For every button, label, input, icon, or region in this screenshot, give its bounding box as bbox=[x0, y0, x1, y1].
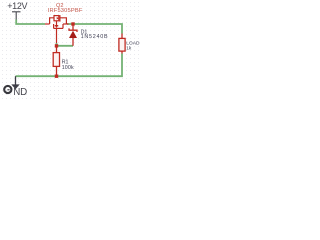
ground symbol bbox=[4, 76, 20, 93]
wire gate link to D1 anode bbox=[57, 43, 74, 46]
resistor R1 bbox=[53, 48, 59, 76]
Q2 source arrow bbox=[57, 17, 59, 20]
diode D1 zener bbox=[69, 24, 77, 46]
svg-text:+12V: +12V bbox=[7, 1, 27, 11]
transistor Q2 bbox=[45, 15, 69, 43]
junction node R1 to ground rail bbox=[55, 75, 58, 78]
junction node gate / R1 / D1 link bbox=[55, 44, 58, 47]
power +12V symbol bbox=[12, 12, 21, 20]
svg-text:1N5240B: 1N5240B bbox=[81, 34, 109, 40]
svg-text:1k: 1k bbox=[126, 45, 132, 51]
wire Q2 drain to LOAD bbox=[67, 24, 122, 34]
Q2 gate arrow bbox=[54, 25, 58, 28]
svg-text:100k: 100k bbox=[62, 65, 74, 71]
svg-text:IRF5305PBF: IRF5305PBF bbox=[48, 8, 83, 14]
svg-text:ND: ND bbox=[13, 87, 27, 98]
wire ground rail bbox=[16, 54, 123, 77]
junction node Q2 drain / D1 cathode bbox=[71, 22, 74, 25]
wire +12V to Q2 source bbox=[16, 20, 45, 25]
resistor LOAD bbox=[119, 34, 125, 54]
